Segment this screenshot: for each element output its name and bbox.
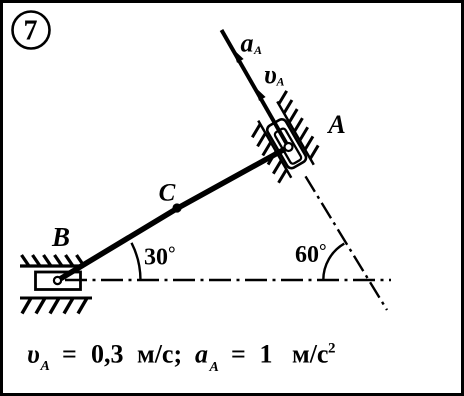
- svg-text:C: C: [159, 180, 176, 207]
- svg-text:=: =: [62, 340, 77, 369]
- svg-text:A: A: [209, 360, 219, 375]
- svg-text:a: a: [195, 340, 208, 369]
- svg-text:a: a: [241, 29, 254, 58]
- svg-text:=: =: [231, 340, 246, 369]
- svg-text:0,3: 0,3: [91, 340, 124, 369]
- svg-text:м/с: м/с: [292, 340, 328, 369]
- svg-text:7: 7: [24, 16, 38, 47]
- svg-text:A: A: [276, 75, 285, 89]
- svg-text:B: B: [51, 222, 70, 252]
- svg-text:A: A: [253, 43, 262, 57]
- svg-text:1: 1: [260, 340, 273, 369]
- svg-text:υ: υ: [264, 60, 277, 89]
- svg-text:м/с;: м/с;: [137, 340, 182, 369]
- svg-text:υ: υ: [27, 340, 40, 369]
- svg-text:A: A: [326, 110, 345, 139]
- svg-text:2: 2: [328, 341, 336, 357]
- svg-text:A: A: [40, 359, 50, 374]
